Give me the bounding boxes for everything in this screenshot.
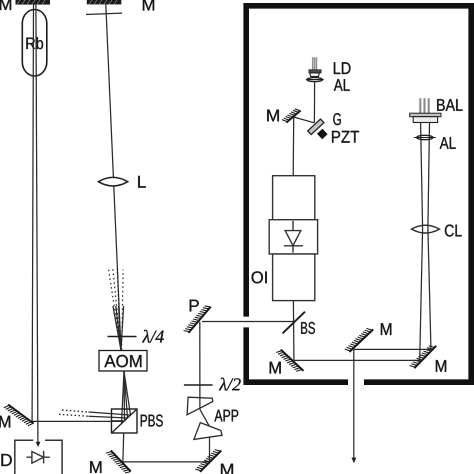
label M (below PBS) bbox=[90, 461, 101, 473]
wire: main beam PBS to left mirror bbox=[32, 420, 124, 422]
mirror P (pickoff) bbox=[184, 306, 211, 333]
label BAL bbox=[437, 99, 462, 111]
grating G on piezo bbox=[308, 119, 324, 135]
label λ/2 bbox=[219, 378, 241, 391]
aspheric lens AL (under BAL) bbox=[414, 135, 436, 139]
wire: output beam exits box downward bbox=[353, 349, 355, 458]
beam splitter BS bbox=[283, 312, 305, 334]
label BS bbox=[301, 322, 315, 334]
label P bbox=[190, 300, 199, 312]
wire: BAL output beam down bbox=[428, 123, 431, 351]
label M (box bottom-left) bbox=[270, 362, 281, 374]
label M (top-second mirror) bbox=[143, 0, 154, 11]
anamorphic prism pair APP: prism 1 bbox=[187, 397, 213, 415]
diode symbol inside OI bbox=[284, 221, 303, 253]
aspheric lens AL (under LD) bbox=[306, 78, 324, 82]
label APP bbox=[214, 410, 238, 422]
label M (bottom-left mirror) bbox=[0, 416, 10, 428]
fan of beams AOM to PBS bbox=[122, 371, 131, 423]
wire: injection beam up to BAL bbox=[420, 123, 423, 360]
label M (box bottom-right) bbox=[436, 360, 446, 372]
mirror M (box bottom-right) bbox=[410, 346, 437, 368]
mirror M below APP bbox=[195, 450, 221, 472]
wire: horizontal beam along box bottom bbox=[294, 359, 421, 361]
wire: return probe beam down to detector bbox=[36, 4, 38, 442]
wire: output beam to middle mirror bbox=[354, 348, 431, 350]
broad-area laser BAL bbox=[410, 98, 441, 122]
laser diode LD bbox=[309, 57, 321, 76]
label PBS bbox=[141, 415, 163, 427]
detector box D bbox=[15, 440, 62, 474]
PBS cube bbox=[112, 409, 138, 433]
reflected beams from PBS going left (solid segments) bbox=[89, 412, 131, 421]
wire: beam APP down to mirror bbox=[209, 426, 211, 462]
mirror M (output fold) bbox=[345, 328, 374, 352]
lens L bbox=[98, 177, 127, 186]
label AOM bbox=[104, 355, 141, 367]
half-wave plate λ/2 bbox=[184, 384, 213, 386]
wire: beam LD to grating bbox=[313, 82, 315, 123]
wire: beam grating to mirror bbox=[294, 117, 315, 123]
label CL bbox=[445, 225, 462, 237]
wire: beam from top mirror down to AOM bbox=[106, 4, 121, 350]
mirror M (box bottom-left) bbox=[276, 350, 303, 372]
mirror M (beside grating) bbox=[282, 109, 301, 123]
wire: beam PBS down to bottom mirror bbox=[122, 433, 125, 462]
mirror M bottom-left (sat-spec fold) bbox=[4, 405, 34, 426]
label M (below APP) bbox=[221, 464, 233, 474]
AOM box bbox=[99, 351, 147, 372]
label λ/4 bbox=[142, 330, 164, 343]
wire: beam mirror down to OI bbox=[292, 117, 295, 176]
label D bbox=[1, 454, 11, 466]
beam inside prism 1 to prism 2 bbox=[200, 409, 210, 426]
cylindrical lens CL bbox=[412, 225, 440, 233]
label AL (under BAL) bbox=[440, 137, 456, 149]
anamorphic prism pair APP: prism 2 bbox=[194, 423, 222, 440]
mirror M top-second (cat-eye retro) bbox=[87, 0, 122, 4]
wire: beam OI to BS to mirror bbox=[292, 301, 295, 361]
Rb vapour cell bbox=[22, 10, 47, 77]
output arrow bbox=[352, 458, 357, 464]
solid fan converging into AOM bbox=[113, 306, 124, 350]
photodiode symbol in D bbox=[27, 451, 50, 464]
wire: beam BS to P bbox=[202, 321, 293, 323]
arrow into detector D bbox=[36, 442, 41, 447]
aperture line under top mirror bbox=[86, 13, 122, 14]
laser enclosure box (thick border with exit gaps) bbox=[246, 6, 471, 382]
piezo PZT knob bbox=[318, 129, 327, 138]
label L bbox=[138, 176, 145, 188]
label OI bbox=[252, 271, 267, 283]
optical isolator OI stack bbox=[269, 176, 317, 301]
mirror M top-left (retro above Rb cell) bbox=[16, 0, 51, 5]
label M (beside grating) bbox=[267, 110, 279, 122]
wire: bottom horizontal beam bbox=[123, 461, 210, 463]
label LD bbox=[334, 62, 351, 74]
label G bbox=[333, 113, 341, 125]
wire: beam P mirror down through λ/2 to APP bbox=[199, 322, 201, 410]
wire: pump beam up through Rb cell bbox=[32, 4, 33, 421]
label M (output fold) bbox=[381, 323, 391, 335]
label AL (under LD) bbox=[334, 79, 350, 91]
label PZT bbox=[332, 131, 359, 143]
label Rb bbox=[26, 37, 43, 49]
dotted rejected orders left of PBS bbox=[59, 410, 89, 416]
quarter-wave plate λ/4 bbox=[108, 336, 137, 338]
dotted diffraction orders above AOM bbox=[108, 269, 123, 350]
mirror M below PBS bbox=[106, 451, 131, 474]
label M (top-left mirror) bbox=[0, 0, 11, 10]
